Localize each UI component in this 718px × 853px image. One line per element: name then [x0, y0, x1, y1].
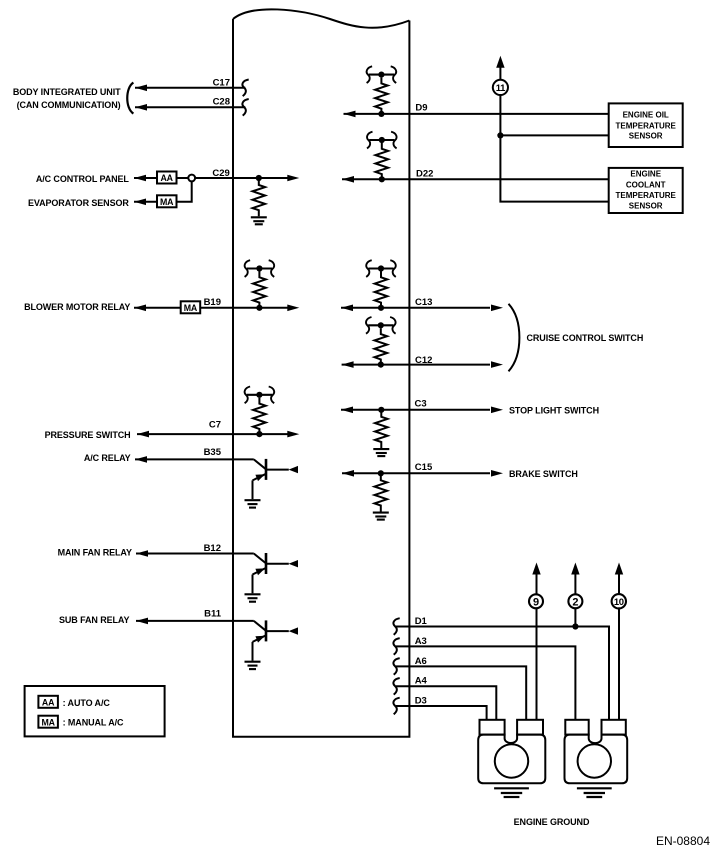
- svg-text:C13: C13: [415, 297, 432, 308]
- svg-text:B11: B11: [204, 608, 222, 619]
- svg-text:TEMPERATURE: TEMPERATURE: [616, 191, 677, 200]
- svg-text:SUB FAN RELAY: SUB FAN RELAY: [59, 615, 129, 625]
- svg-text:: AUTO A/C: : AUTO A/C: [63, 698, 111, 708]
- svg-text:(CAN COMMUNICATION): (CAN COMMUNICATION): [17, 100, 121, 110]
- svg-text:2: 2: [572, 596, 578, 608]
- svg-text:C3: C3: [415, 398, 427, 409]
- svg-text:C17: C17: [213, 77, 230, 88]
- svg-text:BODY INTEGRATED UNIT: BODY INTEGRATED UNIT: [13, 87, 121, 97]
- svg-text:C7: C7: [209, 420, 221, 431]
- svg-text:TEMPERATURE: TEMPERATURE: [616, 121, 677, 130]
- svg-text:D3: D3: [415, 695, 427, 706]
- svg-text:COOLANT: COOLANT: [626, 180, 666, 189]
- svg-text:C15: C15: [415, 462, 433, 473]
- svg-text:ENGINE: ENGINE: [630, 170, 661, 179]
- svg-text:C28: C28: [213, 96, 230, 107]
- svg-text:BRAKE SWITCH: BRAKE SWITCH: [509, 469, 578, 479]
- svg-text:ENGINE OIL: ENGINE OIL: [623, 111, 669, 120]
- svg-text:A/C CONTROL PANEL: A/C CONTROL PANEL: [36, 174, 130, 184]
- svg-text:EN-08804: EN-08804: [656, 834, 710, 848]
- svg-text:A3: A3: [415, 636, 427, 647]
- svg-text:9: 9: [533, 596, 539, 608]
- svg-text:D1: D1: [415, 616, 428, 627]
- svg-text:BLOWER MOTOR RELAY: BLOWER MOTOR RELAY: [24, 302, 130, 312]
- svg-text:B19: B19: [204, 297, 221, 308]
- svg-text:ENGINE GROUND: ENGINE GROUND: [514, 817, 590, 827]
- svg-text:: MANUAL A/C: : MANUAL A/C: [63, 718, 124, 728]
- svg-text:A/C RELAY: A/C RELAY: [84, 453, 131, 463]
- svg-text:C12: C12: [415, 355, 432, 366]
- svg-text:D22: D22: [416, 168, 433, 179]
- svg-text:C29: C29: [212, 168, 229, 179]
- svg-text:B35: B35: [204, 447, 222, 458]
- svg-text:EVAPORATOR SENSOR: EVAPORATOR SENSOR: [28, 198, 129, 208]
- svg-text:SENSOR: SENSOR: [629, 131, 663, 140]
- svg-text:PRESSURE SWITCH: PRESSURE SWITCH: [45, 430, 131, 440]
- svg-text:SENSOR: SENSOR: [629, 202, 663, 211]
- svg-text:B12: B12: [204, 543, 221, 554]
- svg-text:MAIN FAN RELAY: MAIN FAN RELAY: [58, 547, 132, 557]
- svg-text:A6: A6: [415, 656, 427, 667]
- svg-text:11: 11: [496, 83, 506, 94]
- svg-text:STOP LIGHT SWITCH: STOP LIGHT SWITCH: [509, 405, 599, 415]
- svg-text:A4: A4: [415, 676, 428, 687]
- svg-text:D9: D9: [415, 103, 427, 114]
- svg-text:CRUISE CONTROL SWITCH: CRUISE CONTROL SWITCH: [527, 333, 644, 343]
- svg-text:10: 10: [614, 597, 624, 608]
